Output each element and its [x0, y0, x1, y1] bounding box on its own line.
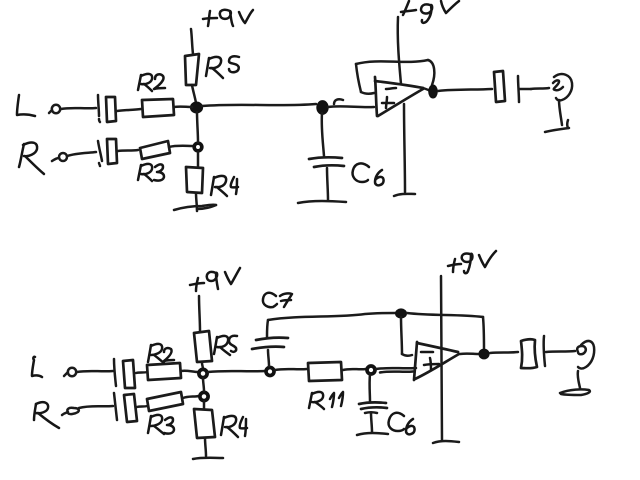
input jack L	[49, 105, 60, 113]
node A junction	[191, 102, 203, 112]
resistor R4 (bottom)	[194, 409, 215, 438]
label C6	[353, 163, 384, 185]
wire capacitor to R3	[118, 150, 138, 151]
input jack R	[52, 153, 67, 161]
output jack (bottom circuit)	[577, 341, 594, 369]
ground (below C6)	[298, 201, 346, 203]
wire +9V to R5 (bottom)	[199, 296, 200, 331]
capacitor (output, top circuit)	[494, 71, 531, 102]
wire node A to node B	[202, 104, 316, 106]
wire node B to op-amp + input	[328, 105, 374, 108]
wire feedback left side down to op-amp - input	[401, 317, 412, 356]
resistor R3 (bottom)	[147, 392, 183, 411]
capacitor (L input, bottom)	[114, 359, 135, 388]
label R4	[211, 176, 238, 196]
wire node C to R4	[197, 152, 200, 167]
label L (bottom input)	[32, 357, 42, 377]
node D output junction	[429, 85, 437, 97]
label R (bottom input)	[34, 402, 59, 428]
capacitor C7 plates	[252, 338, 288, 366]
wire op-amp output to node D	[423, 88, 430, 91]
label L (left input)	[17, 95, 35, 116]
node C junction	[194, 143, 202, 151]
ground (below output jack, bottom)	[560, 389, 590, 395]
wire jack L to capacitor (bottom)	[77, 371, 113, 372]
wire jack L to capacitor	[61, 108, 96, 109]
wire capacitor to output jack	[531, 88, 549, 89]
node B junction	[317, 101, 328, 114]
label C7	[263, 293, 292, 307]
wire C7 top (feedback)	[267, 313, 395, 337]
resistor R5	[185, 54, 199, 85]
resistor R2 (bottom)	[147, 363, 181, 380]
wire jack to ground (bottom)	[578, 371, 580, 388]
node I junction (feedback tap)	[396, 309, 406, 318]
wire node G to op-amp + input	[376, 368, 416, 369]
wire R11 to node G	[343, 369, 366, 370]
wire node D to output capacitor	[438, 89, 492, 91]
label +9V (bottom, R5 supply)	[190, 268, 240, 291]
wire R5 to node E	[202, 363, 203, 369]
node E junction	[199, 369, 207, 377]
ground (below R4)	[174, 205, 216, 210]
wire node B to C6	[322, 113, 324, 156]
label R3 (bottom)	[148, 415, 174, 434]
wire R4 to ground (bottom)	[205, 438, 206, 456]
wire R3 to node C	[169, 146, 193, 147]
wire R2 to node A	[174, 105, 192, 108]
label +9V (top supply for R5)	[203, 10, 253, 26]
ground (below output jack)	[545, 120, 569, 132]
node G junction	[367, 366, 375, 374]
ground (below R4, bottom)	[193, 458, 223, 459]
wire +9V rail (bottom op-amp)	[441, 276, 442, 441]
wire R5 to node A	[192, 85, 196, 103]
wire node G to C6 (bottom)	[368, 374, 371, 402]
label R2	[138, 74, 165, 91]
wire node J to output capacitor (bottom)	[490, 352, 518, 353]
wire feedback loop (op-amp U1)	[356, 60, 434, 94]
input jack R (bottom)	[62, 408, 79, 415]
wire node E to node H	[203, 378, 204, 391]
wire feedback right side down	[483, 317, 484, 350]
wire op-amp output to node J	[460, 352, 478, 355]
label C6 (bottom)	[389, 413, 415, 435]
wire capacitor to output jack (bottom)	[546, 351, 575, 352]
label R4 (bottom)	[221, 416, 247, 437]
wire jack to ground	[559, 100, 562, 125]
wire capacitor to R2 (bottom)	[136, 372, 147, 373]
wire +9V rail upper	[398, 17, 401, 84]
wire capacitor to R2	[117, 109, 141, 111]
label R2 (bottom)	[148, 344, 174, 363]
label R (right input)	[19, 142, 44, 174]
wire R4 to ground	[196, 193, 197, 211]
wire node H to R4	[203, 401, 206, 409]
label R5 (bottom)	[214, 336, 237, 355]
op-amp U1	[375, 77, 423, 116]
node F junction	[266, 368, 274, 376]
label +9V (bottom op-amp supply)	[448, 251, 496, 273]
label R11	[309, 392, 343, 409]
resistor R3	[140, 141, 170, 159]
capacitor (L input)	[98, 95, 116, 122]
wire node F to R11	[275, 369, 307, 370]
wire jack R to capacitor (bottom)	[79, 406, 113, 408]
capacitor C6 (bottom circuit)	[359, 402, 387, 432]
wire R3 to node H	[183, 396, 199, 398]
capacitor (R input, bottom)	[114, 393, 137, 422]
input jack L (bottom)	[64, 368, 76, 376]
resistor R5 (bottom)	[194, 331, 212, 362]
ground (below C6, bottom)	[357, 433, 388, 435]
wire double stroke at + input	[380, 372, 413, 373]
op-amp U2	[414, 342, 459, 380]
supply terminal tick	[394, 194, 415, 196]
wire jack R to capacitor	[67, 152, 96, 156]
resistor R2	[142, 99, 174, 117]
supply terminal tick (bottom)	[433, 441, 459, 443]
label R3	[138, 164, 164, 181]
node J output junction	[479, 349, 489, 358]
wire node I to op-amp output side	[407, 313, 483, 317]
resistor R4	[186, 167, 203, 193]
wire R2 to node E	[181, 371, 198, 372]
label +9V (op-amp supply, top)	[401, 1, 459, 23]
node H junction	[200, 392, 208, 400]
label R5	[206, 56, 239, 78]
capacitor (R input)	[98, 139, 117, 166]
wire capacitor to R3 (bottom)	[137, 406, 147, 407]
capacitor C6 (top circuit)	[309, 157, 344, 200]
wire hook at node B	[334, 99, 343, 104]
wire +9V to R5	[191, 29, 193, 54]
wire node A to node C	[197, 112, 198, 142]
resistor R11	[308, 362, 342, 381]
wire +9V rail lower	[404, 104, 405, 192]
wire node E to node F	[208, 371, 265, 372]
output jack (top circuit)	[553, 74, 572, 100]
capacitor (output, bottom circuit)	[521, 336, 545, 368]
